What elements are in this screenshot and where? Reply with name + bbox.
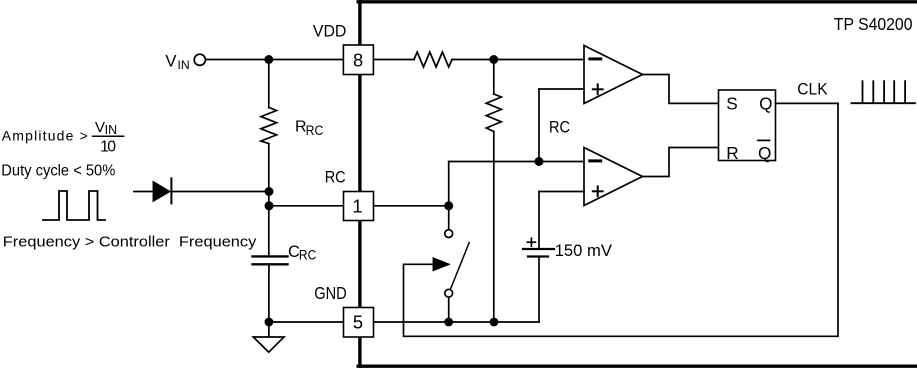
wire GND rail from pin 5 [374,321,540,323]
fraction bar [93,135,124,137]
svg-text:Q: Q [758,143,771,163]
label RRC [295,119,324,138]
wire CLK feedback loop [404,103,839,336]
svg-text:RC: RC [306,123,324,138]
svg-text:VDD: VDD [313,22,347,41]
wire divider node down [493,60,495,95]
wire switch riser [448,162,450,230]
arrowhead switch control [433,258,448,270]
pin 5 box [344,308,374,338]
node junction dot switch top [444,201,453,210]
wire VIN to pin 8 [205,59,343,61]
svg-text:IN: IN [178,58,190,72]
capacitor CRC [253,256,288,264]
node junction dot divider top [489,55,498,64]
pin 8 box [343,45,373,75]
wire Q output CLK [776,102,839,104]
node junction dot VIN/RRC [264,55,273,64]
wire divider bottom to GND rail [493,132,495,323]
svg-text:Q: Q [759,94,772,114]
svg-text:Frequency > Controller Freque: Frequency > Controller Frequency [3,235,257,251]
svg-text:RC: RC [299,247,317,262]
diode D1 [153,178,171,203]
switch S1 [445,230,469,297]
label Amplitude fraction [2,119,117,156]
input square wave symbol [43,191,105,220]
svg-text:RC: RC [549,117,570,136]
svg-text:10: 10 [100,139,116,156]
svg-text:IN: IN [105,123,118,137]
svg-text:R: R [726,143,738,163]
wire comp2 plus down to battery [538,192,540,250]
svg-text:V: V [165,52,176,71]
wire diode to RC node [171,191,269,193]
wire comparator 2 output to R [643,148,719,177]
wire divider node to comparator 1 minus [452,59,584,61]
wire to ground symbol [268,322,270,337]
battery 150 mV [523,238,554,256]
svg-text:RC: RC [325,168,346,187]
node junction dot GND left [265,318,274,327]
label VIN [165,52,189,72]
wire RRC bottom to CRC [268,144,270,257]
svg-text:S: S [726,94,737,114]
CLK output waveform symbol [851,81,915,103]
svg-text:Duty cycle < 50%: Duty cycle < 50% [1,162,115,179]
wire switch bottom to GND rail [448,297,450,322]
SR latch U3 [719,90,776,163]
label CRC [288,243,317,262]
wire diode input lead [134,191,154,193]
node junction dot diode [265,187,274,196]
resistor divider bottom (vertical) [486,94,501,132]
node junction dot switch bottom [444,318,453,327]
svg-text:8: 8 [353,49,363,70]
wire pin 8 to divider resistor [373,59,414,61]
wire CRC bottom to ground [268,264,270,322]
svg-text:1: 1 [352,195,362,216]
IC boundary box TP S40200 [358,2,917,366]
svg-text:5: 5 [353,312,363,333]
wire comparator 2 plus input [539,191,584,193]
wire comparator 1 plus input [539,88,584,90]
wire battery to GND rail [538,257,540,323]
node junction dot RC pin wire [265,201,274,210]
node VIN terminal circle [194,54,205,65]
wire RRC top lead [268,60,270,108]
wire comp1 plus down to RC net [538,89,540,162]
svg-text:Amplitude >: Amplitude > [2,128,88,144]
wire GND node to pin 5 [269,321,344,323]
comparator U1 [584,46,643,104]
wire RC net horizontal to comparator 2 minus [449,161,584,163]
resistor RRC [261,108,277,144]
wire comparator 1 output to S [643,75,719,104]
ground symbol [253,337,284,352]
pin 1 box [344,192,374,221]
node junction dot divider bottom [490,318,499,327]
resistor divider top (horizontal) [414,52,452,67]
wire RC node to pin 1 [269,205,344,207]
svg-text:150 mV: 150 mV [555,241,613,260]
wire RC pin to switch top [374,205,449,207]
svg-text:GND: GND [314,283,347,303]
node junction dot RC net [535,157,544,166]
svg-text:TP S40200: TP S40200 [834,14,913,34]
comparator U2 [584,148,643,206]
svg-text:CLK: CLK [797,79,827,98]
